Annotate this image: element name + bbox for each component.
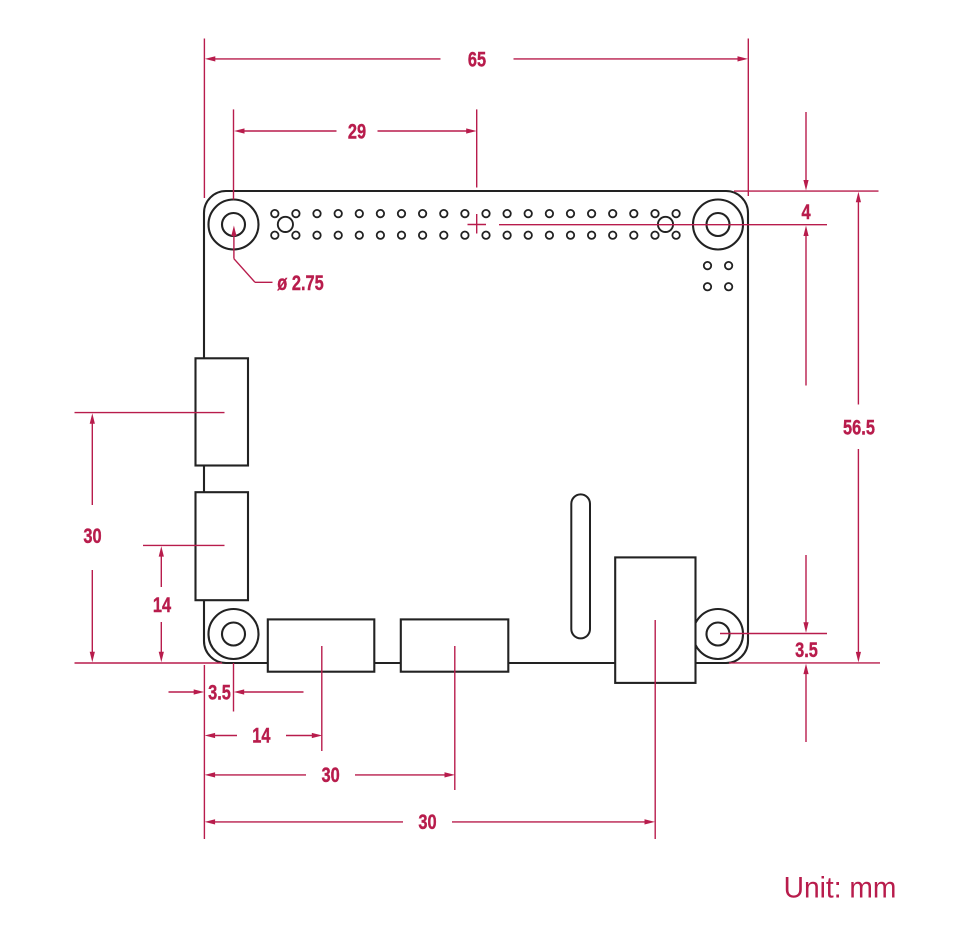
svg-text:65: 65: [468, 48, 486, 71]
dimension 30 (left, upper connector to bottom): [83, 413, 101, 662]
dimension 3.5 (bottom-right hole to bottom edge): [795, 555, 818, 742]
extension line: USB1 centre (for 14 bottom): [321, 646, 323, 751]
extension line: hole row centre (for 4): [499, 224, 827, 226]
extension line: board left edge (top, for 65): [203, 39, 205, 199]
dimension 30 (left edge to large connector centre): [205, 810, 655, 833]
fiducial circle right of header: [658, 217, 673, 232]
dimension 65 (top width): [205, 48, 748, 71]
extension line: board left edge (bottom, long): [203, 665, 205, 839]
left edge connector lower: [196, 492, 249, 600]
svg-text:30: 30: [321, 763, 339, 786]
svg-text:30: 30: [418, 810, 436, 833]
dimension 30 (left edge to USB2 centre): [205, 763, 455, 786]
bottom micro-USB connector 2: [401, 619, 509, 671]
dimension 14 (left, lower connector to bottom): [153, 546, 172, 662]
svg-text:30: 30: [83, 524, 101, 547]
leader ø2.75: [231, 226, 323, 295]
svg-text:Unit: mm: Unit: mm: [784, 872, 897, 905]
extension line: left hole centre (for 29): [233, 109, 235, 199]
bottom-right large connector: [615, 557, 695, 683]
svg-text:29: 29: [348, 120, 366, 143]
svg-text:3.5: 3.5: [795, 638, 818, 661]
dimension 4 (top edge to hole row): [801, 112, 811, 386]
dimension 29 (hole to header centre): [234, 120, 477, 143]
svg-text:4: 4: [801, 200, 811, 223]
mounting hole top-left ø2.75: [209, 200, 259, 250]
mounting hole bottom-right ø2.75: [693, 609, 743, 659]
2x2 test pad holes below top-right hole: [704, 262, 733, 291]
svg-text:14: 14: [252, 724, 271, 747]
extension line: board top edge (right, for 4 and 56.5): [734, 190, 879, 192]
mounting hole top-right ø2.75: [693, 200, 743, 250]
dimension 56.5 (board height): [843, 192, 875, 663]
fiducial circle left of header: [278, 217, 293, 232]
dimension 14 (left edge to USB1 centre): [205, 724, 323, 747]
board outline: [204, 191, 748, 663]
svg-text:3.5: 3.5: [208, 681, 231, 704]
extension line: board right edge (top, for 65): [747, 39, 749, 197]
extension line: board bottom edge (left): [75, 662, 223, 664]
header centre crosshair: [468, 214, 487, 234]
extension line: board bottom edge (right, for 56.5 and 3.5): [729, 662, 880, 664]
extension line: header centre (for 29): [476, 109, 478, 187]
svg-text:56.5: 56.5: [843, 416, 875, 439]
svg-text:ø 2.75: ø 2.75: [277, 271, 323, 294]
extension line: large connector centre (for 30 bottom 2): [654, 620, 656, 839]
extension line: upper left connector centre (for 30 left): [75, 412, 225, 414]
svg-text:14: 14: [153, 593, 172, 616]
bottom micro-USB connector 1: [268, 619, 375, 671]
GPIO header pin holes 2x20: [271, 210, 680, 239]
extension line: USB2 centre (for 30 bottom): [454, 646, 456, 790]
dimension 3.5 (left edge to bottom-left hole): [169, 681, 304, 704]
extension line: lower left connector centre (for 14 left): [143, 544, 225, 546]
extension line: bottom-right hole centre (for 3.5): [720, 633, 827, 635]
mounting hole bottom-left ø2.75: [209, 609, 259, 659]
vertical slot: [571, 494, 590, 638]
left edge connector upper: [196, 358, 249, 465]
extension line: bottom-left hole centre (for 3.5): [233, 663, 235, 712]
